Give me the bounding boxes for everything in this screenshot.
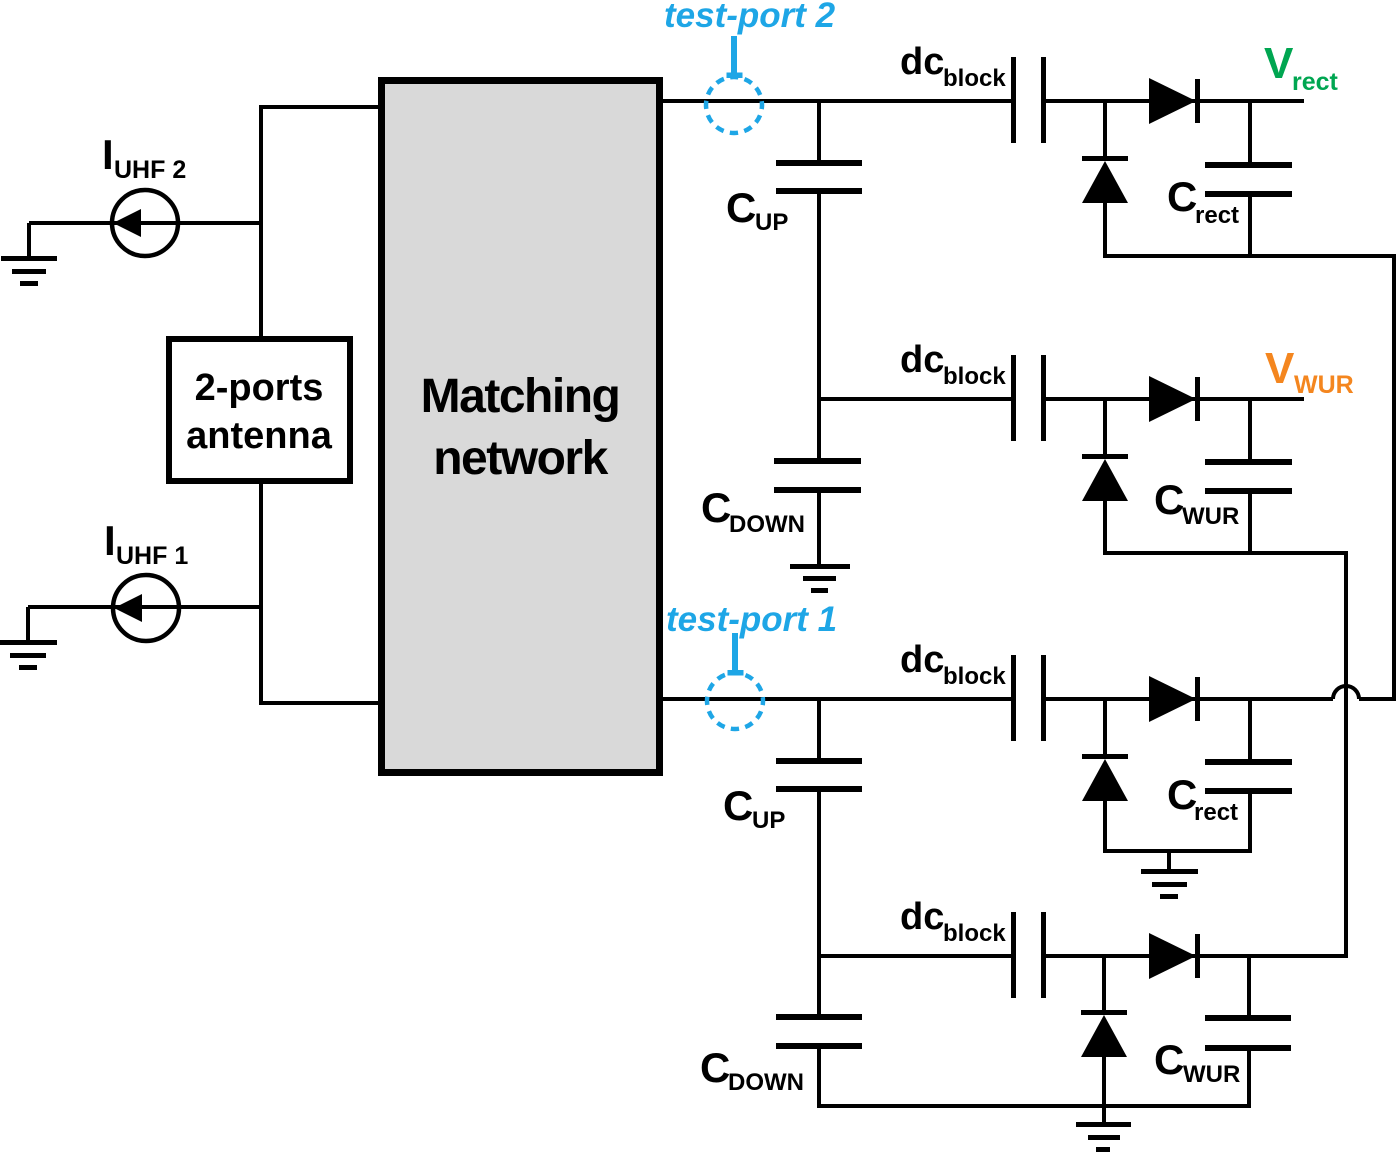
svg-text:V: V	[1264, 39, 1294, 88]
wire CUP1 branch upper	[817, 101, 821, 162]
label CUP2	[723, 782, 785, 834]
svg-text:I: I	[104, 517, 116, 564]
capacitor dcblock3	[1011, 655, 1046, 741]
svg-text:block: block	[943, 65, 1006, 92]
capacitor dcblock2	[1011, 355, 1046, 441]
capacitor CDOWN1	[774, 458, 861, 493]
svg-text:V: V	[1265, 344, 1295, 393]
label Vrect (output node)	[1264, 39, 1339, 96]
capacitor Crect1	[1205, 162, 1292, 197]
capacitor dcblock1	[1011, 57, 1046, 143]
wire D3b anode to rail	[1103, 801, 1107, 853]
svg-text:block: block	[943, 663, 1006, 690]
wire stage2 bottom rail	[1103, 551, 1346, 555]
wire Crect1 top	[1248, 101, 1252, 163]
Matching network box	[382, 81, 660, 773]
svg-text:C: C	[723, 782, 753, 829]
svg-text:UP: UP	[755, 209, 788, 236]
diode D2a (series)	[1149, 376, 1200, 422]
svg-text:dc: dc	[900, 339, 944, 381]
diode D1a (series)	[1149, 78, 1200, 124]
ground (stage4)	[1076, 1122, 1131, 1152]
capacitor CWUR3	[1205, 1015, 1291, 1051]
svg-text:C: C	[1154, 1036, 1184, 1083]
svg-text:2-ports: 2-ports	[195, 367, 324, 409]
wire CUP2 to CDOWN2	[817, 791, 821, 956]
svg-text:network: network	[433, 432, 608, 485]
svg-text:UP: UP	[752, 807, 785, 834]
wire shunt diode D2b branch	[1103, 399, 1107, 456]
label dcblock4	[900, 896, 1006, 947]
wire CDOWN2 branch	[817, 956, 821, 1016]
capacitor CUP2	[776, 758, 862, 792]
svg-text:C: C	[1167, 771, 1197, 818]
svg-text:C: C	[1167, 173, 1197, 220]
wire bottom-left into matching network	[259, 701, 382, 705]
svg-text:test-port 1: test-port 1	[666, 600, 837, 639]
diode D4a (series)	[1149, 933, 1200, 979]
wire stage1 bottom rail	[1103, 254, 1396, 258]
wire right vertical rail to stage3	[1392, 254, 1396, 701]
wire stage1 output left	[660, 99, 1014, 103]
wire vertical antenna bottom	[259, 481, 263, 705]
svg-text:rect: rect	[1292, 68, 1339, 96]
wire CWUR2 bottom	[1248, 494, 1252, 555]
svg-text:C: C	[1154, 476, 1184, 523]
wire stage3 output right	[1043, 697, 1333, 701]
svg-text:dc: dc	[900, 896, 944, 938]
wire D4b anode to rail	[1102, 1057, 1106, 1110]
svg-text:UHF 2: UHF 2	[114, 156, 186, 184]
wire CWUR2 top	[1248, 399, 1252, 461]
wire stage3 output to right rail	[1359, 697, 1396, 701]
wire stage4 output right	[1043, 954, 1346, 958]
svg-text:WUR: WUR	[1182, 503, 1239, 530]
wire D1b anode to rail	[1103, 203, 1107, 258]
wire shunt diode D4b branch	[1102, 956, 1106, 1012]
label IUHF2	[102, 131, 186, 184]
svg-text:WUR: WUR	[1294, 371, 1354, 399]
wire from ground to current source IUHF1	[28, 605, 261, 609]
diode D4b (shunt)	[1081, 1010, 1127, 1057]
wire from ground to current source IUHF2	[29, 221, 261, 225]
wire stage4 bottom rail	[817, 1104, 1251, 1108]
wire CWUR3 bottom	[1247, 1051, 1251, 1108]
wire stage2 output right	[1043, 397, 1304, 401]
svg-text:dc: dc	[900, 41, 944, 83]
current source IUHF1	[113, 575, 179, 641]
svg-text:rect: rect	[1194, 799, 1238, 826]
capacitor CDOWN2	[776, 1014, 862, 1049]
label IUHF1	[104, 517, 188, 570]
wire ground stem IUHF2	[27, 223, 31, 258]
test-port 2 dashed circle	[706, 77, 762, 133]
svg-text:antenna: antenna	[186, 415, 333, 457]
wire Crect1 bottom	[1248, 196, 1252, 258]
label Crect1	[1167, 173, 1239, 229]
wire stage2 output left	[819, 397, 1014, 401]
2-ports antenna box	[169, 339, 350, 481]
svg-text:rect: rect	[1195, 202, 1239, 229]
svg-text:I: I	[102, 131, 114, 178]
ground (stage3)	[1141, 869, 1198, 899]
label VWUR (output node)	[1265, 344, 1354, 399]
wire stage1 output right	[1043, 99, 1304, 103]
svg-text:C: C	[726, 184, 756, 231]
ground (IUHF2)	[1, 256, 57, 286]
label CWUR3	[1154, 1036, 1240, 1088]
label dcblock2	[900, 339, 1006, 390]
wire D2b anode to rail	[1103, 501, 1107, 555]
capacitor dcblock4	[1011, 912, 1046, 998]
svg-text:Matching: Matching	[421, 370, 620, 423]
current source IUHF2	[112, 190, 178, 256]
diode D1b (shunt)	[1082, 156, 1128, 203]
label CDOWN2	[700, 1044, 804, 1096]
label CUP1	[726, 184, 788, 236]
diode D3b (shunt)	[1082, 754, 1128, 801]
ground (IUHF1)	[0, 640, 57, 670]
svg-text:block: block	[943, 363, 1006, 390]
wire ground stem stage4	[1102, 1106, 1106, 1124]
test-port 1 tick	[732, 633, 738, 671]
wire CUP1 to CDOWN1	[817, 193, 821, 399]
label Crect2	[1167, 771, 1238, 826]
test-port 2 tick	[731, 36, 737, 74]
svg-text:DOWN: DOWN	[728, 1069, 804, 1096]
svg-text:block: block	[943, 920, 1006, 947]
wire CUP2 branch upper	[817, 699, 821, 760]
label CDOWN1	[701, 484, 805, 538]
label dcblock3	[900, 639, 1006, 690]
wire top-left into matching network	[259, 105, 382, 109]
wire shunt diode D3b branch	[1103, 699, 1107, 756]
wire Crect2 top	[1248, 699, 1252, 761]
wire ground stem IUHF1	[26, 607, 30, 642]
wire Crect2 bottom	[1248, 794, 1252, 853]
wire ground stem stage3	[1167, 851, 1171, 871]
svg-text:dc: dc	[900, 639, 944, 681]
wire shunt diode D1b branch	[1103, 101, 1107, 158]
svg-text:C: C	[700, 1044, 730, 1091]
wire stage3 bottom rail	[1103, 849, 1252, 853]
label dcblock1	[900, 41, 1006, 92]
svg-text:C: C	[701, 484, 731, 531]
wire stage3 output left	[660, 697, 1014, 701]
svg-text:WUR: WUR	[1183, 1061, 1240, 1088]
wire hop over stage2 rail	[1333, 686, 1359, 699]
capacitor CWUR2	[1205, 459, 1292, 494]
wire CDOWN2 to rail	[817, 1048, 821, 1108]
capacitor Crect2	[1205, 759, 1292, 794]
capacitor CUP1	[776, 160, 862, 194]
wire vertical antenna top to matching network	[259, 105, 263, 339]
diode D2b (shunt)	[1082, 454, 1128, 501]
test-port 1 dashed circle	[707, 673, 763, 729]
svg-text:UHF 1: UHF 1	[116, 542, 188, 570]
label CWUR2	[1154, 476, 1239, 530]
wire CWUR3 top	[1247, 956, 1251, 1017]
svg-text:test-port 2: test-port 2	[664, 0, 836, 35]
diode D3a (series)	[1149, 676, 1200, 722]
wire CDOWN1 branch	[817, 399, 821, 460]
wire right vertical rail to stage4	[1344, 551, 1348, 958]
wire CDOWN1 ground stem	[817, 492, 821, 566]
ground (CDOWN1)	[790, 564, 850, 593]
wire stage4 output left	[819, 954, 1014, 958]
svg-text:DOWN: DOWN	[729, 511, 805, 538]
